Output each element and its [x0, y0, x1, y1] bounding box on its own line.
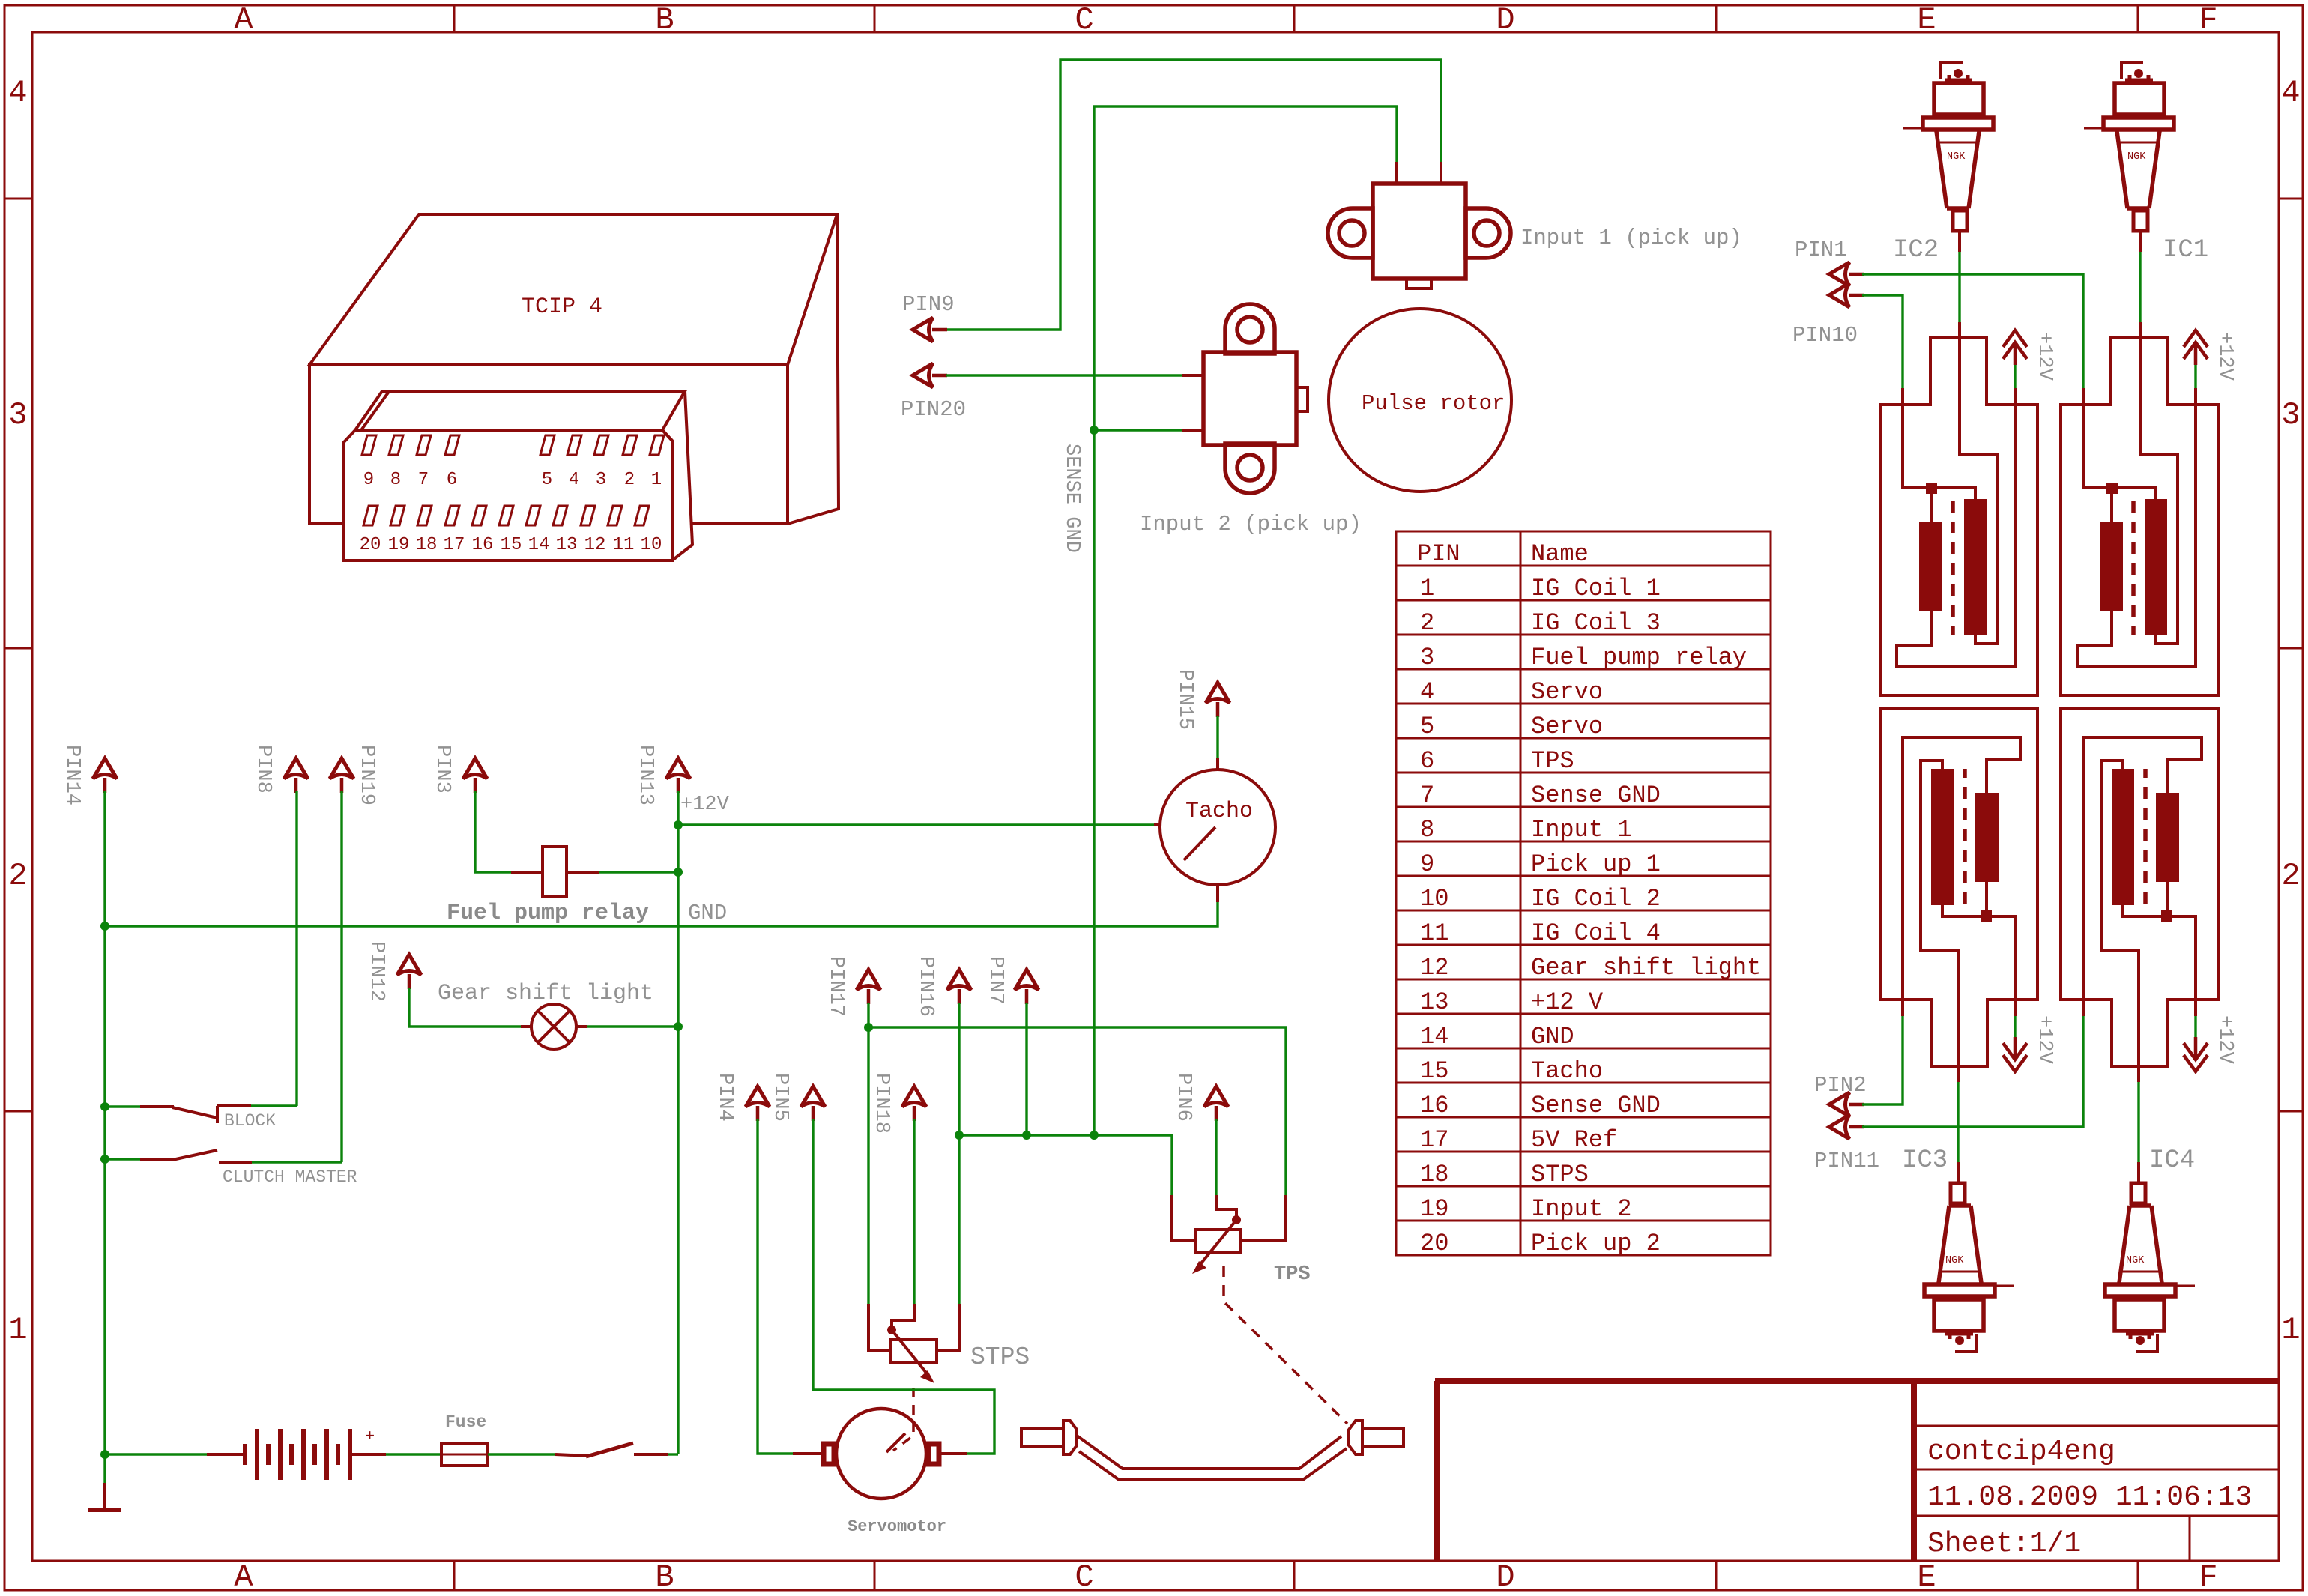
svg-text:F: F — [2199, 2, 2217, 38]
junction 5V node — [864, 1023, 873, 1032]
svg-text:17: 17 — [1420, 1126, 1448, 1154]
frame row ticks left — [4, 199, 32, 1111]
svg-text:IG Coil 2: IG Coil 2 — [1531, 885, 1661, 913]
svg-text:GND: GND — [1531, 1023, 1574, 1051]
svg-text:Input 1: Input 1 — [1531, 816, 1631, 844]
motor Servomotor — [836, 1409, 926, 1499]
node PIN1 arrow — [1829, 262, 1864, 286]
node PIN4 arrow — [746, 1086, 770, 1121]
svg-text:Fuel pump relay: Fuel pump relay — [447, 901, 649, 926]
svg-text:Gear shift light: Gear shift light — [1531, 954, 1761, 982]
svg-text:2: 2 — [624, 470, 635, 490]
svg-text:16: 16 — [472, 535, 494, 555]
svg-text:3: 3 — [2281, 397, 2300, 433]
junction relay — [674, 868, 683, 877]
potentiometer STPS — [868, 1304, 891, 1350]
node PIN5 arrow — [801, 1086, 825, 1121]
title block — [1435, 1381, 2279, 1561]
node PIN7 arrow — [1015, 970, 1039, 1004]
frame row labels 4-1 right — [2281, 75, 2300, 1348]
connector pin slots row A — [362, 435, 376, 455]
svg-text:4: 4 — [569, 470, 579, 490]
svg-text:12: 12 — [1420, 954, 1448, 982]
svg-text:2: 2 — [8, 858, 27, 894]
svg-text:PIN2: PIN2 — [1814, 1073, 1867, 1098]
ECU connector block — [344, 391, 692, 560]
wire PIN18 vertical — [913, 1119, 915, 1304]
svg-text:PIN14: PIN14 — [61, 745, 83, 805]
wire IC4 +12V stub — [2194, 1016, 2196, 1038]
wire IC2 HV — [1958, 252, 1960, 322]
frame column labels A-F bottom — [234, 1559, 2217, 1595]
svg-text:Servo: Servo — [1531, 678, 1603, 706]
svg-text:Input 2: Input 2 — [1531, 1195, 1631, 1223]
svg-text:C: C — [1075, 2, 1093, 38]
svg-text:8: 8 — [390, 470, 401, 490]
svg-text:1: 1 — [2281, 1312, 2300, 1348]
svg-text:TCIP 4: TCIP 4 — [522, 294, 602, 320]
svg-text:9: 9 — [363, 470, 374, 490]
power +12V IC4 — [2184, 1037, 2208, 1071]
svg-text:IC2: IC2 — [1893, 236, 1939, 265]
wire PIN6 vertical — [1215, 1119, 1217, 1195]
svg-text:1: 1 — [1420, 575, 1434, 602]
svg-text:BLOCK: BLOCK — [224, 1111, 276, 1131]
wire BLOCK right — [251, 1104, 297, 1107]
frame row ticks right — [2279, 199, 2303, 1111]
svg-text:4: 4 — [2281, 75, 2300, 111]
pin tacho bottom — [1216, 885, 1219, 902]
pulse rotor — [1329, 309, 1511, 492]
ECU box TCIP 4 front face — [309, 365, 788, 524]
svg-text:Tacho: Tacho — [1531, 1057, 1603, 1085]
svg-text:A: A — [234, 2, 253, 38]
svg-text:11.08.2009 11:06:13: 11.08.2009 11:06:13 — [1927, 1481, 2252, 1514]
svg-text:14: 14 — [1420, 1023, 1448, 1051]
potentiometer TPS — [1172, 1195, 1195, 1241]
node PIN15 arrow — [1206, 683, 1230, 717]
svg-text:17: 17 — [444, 535, 465, 555]
wire +12V rail to tacho — [678, 823, 1154, 826]
svg-text:8: 8 — [1420, 816, 1434, 844]
svg-text:PIN9: PIN9 — [902, 292, 955, 317]
svg-text:PIN7: PIN7 — [984, 956, 1006, 1005]
svg-text:PIN12: PIN12 — [365, 941, 387, 1002]
svg-text:PIN: PIN — [1417, 540, 1460, 568]
wire PIN4 to servo — [758, 1119, 793, 1454]
wire PIN11 to IC4 — [1862, 1016, 2083, 1127]
svg-text:TPS: TPS — [1274, 1263, 1311, 1286]
wire PIN2 to IC3 — [1862, 1016, 1903, 1104]
ignition coil IC3 — [1880, 709, 2037, 1082]
wire PIN14 / GND vertical — [103, 791, 106, 1483]
svg-text:+: + — [365, 1427, 375, 1446]
power +12V IC1 — [2184, 330, 2208, 365]
frame column ticks bottom — [454, 1561, 2138, 1590]
node PIN12 arrow — [397, 955, 421, 989]
svg-text:Servomotor: Servomotor — [848, 1517, 946, 1536]
svg-text:20: 20 — [360, 535, 381, 555]
svg-text:Input 1 (pick up): Input 1 (pick up) — [1520, 226, 1742, 250]
svg-text:6: 6 — [447, 470, 457, 490]
node PIN14 arrow — [93, 758, 117, 793]
node PIN9 arrow — [913, 318, 947, 342]
svg-text:PIN13: PIN13 — [634, 745, 656, 805]
svg-text:3: 3 — [8, 397, 27, 433]
svg-text:PIN5: PIN5 — [769, 1073, 791, 1122]
svg-text:10: 10 — [1420, 885, 1448, 913]
node PIN17 arrow — [857, 970, 880, 1004]
svg-text:PIN18: PIN18 — [870, 1073, 892, 1134]
wire IC1 HV — [2139, 252, 2141, 322]
junction sense rail 1 — [955, 1131, 964, 1140]
svg-text:TPS: TPS — [1531, 747, 1574, 775]
TPS wiper — [1216, 1195, 1236, 1217]
svg-text:Servo: Servo — [1531, 713, 1603, 740]
connector X1 body — [344, 391, 692, 560]
wire IC2 +12V stub — [2014, 365, 2016, 388]
svg-text:PIN11: PIN11 — [1814, 1149, 1879, 1173]
svg-text:IG Coil 3: IG Coil 3 — [1531, 609, 1661, 637]
svg-text:Gear shift light: Gear shift light — [438, 981, 653, 1006]
connector pin slots row B — [363, 506, 378, 525]
wire sense rail — [959, 1135, 1172, 1195]
throttle cable — [1021, 1428, 1063, 1446]
svg-text:NGK: NGK — [2126, 1255, 2145, 1266]
svg-text:16: 16 — [1420, 1092, 1448, 1119]
wire PIN16 vertical — [958, 1003, 960, 1304]
pin name table outline — [1396, 531, 1771, 1255]
svg-text:Sense GND: Sense GND — [1531, 782, 1661, 809]
frame column ticks top — [454, 5, 2138, 32]
svg-text:E: E — [1917, 2, 1936, 38]
svg-text:F: F — [2199, 1559, 2217, 1595]
svg-text:13: 13 — [556, 535, 578, 555]
ground symbol — [103, 1483, 106, 1508]
node PIN16 arrow — [947, 970, 971, 1004]
title block frame — [1435, 1378, 2279, 1384]
svg-text:7: 7 — [418, 470, 429, 490]
lamp Gear shift light — [531, 1004, 576, 1049]
svg-text:15: 15 — [501, 535, 522, 555]
svg-text:2: 2 — [1420, 609, 1434, 637]
svg-text:C: C — [1075, 1559, 1093, 1595]
svg-text:PIN3: PIN3 — [431, 745, 453, 794]
spark plug IC4 — [2105, 1162, 2195, 1352]
svg-text:14: 14 — [528, 535, 550, 555]
pickup sensor Input 2 — [1203, 304, 1308, 493]
svg-text:+12V: +12V — [2214, 1015, 2236, 1065]
node PIN18 arrow — [902, 1086, 926, 1121]
svg-text:CLUTCH MASTER: CLUTCH MASTER — [223, 1167, 357, 1187]
wire Input 2 lower pin to Input 1 left pin (SENSE GND riser) — [1094, 106, 1397, 1135]
svg-text:IG Coil 1: IG Coil 1 — [1531, 575, 1661, 602]
ECU box TCIP 4 top face — [309, 214, 837, 365]
svg-text:11: 11 — [1420, 919, 1448, 947]
junction sense rail 3 — [1090, 1131, 1099, 1140]
svg-text:Pick up 1: Pick up 1 — [1531, 850, 1661, 878]
svg-text:D: D — [1496, 2, 1514, 38]
svg-text:Pulse rotor: Pulse rotor — [1362, 391, 1505, 416]
svg-text:Fuel pump relay: Fuel pump relay — [1531, 644, 1747, 671]
wire PIN19 vertical — [340, 791, 342, 1162]
svg-text:GND: GND — [688, 901, 727, 925]
svg-text:12: 12 — [584, 535, 606, 555]
STPS wiper — [892, 1304, 914, 1327]
wire lamp to +12V — [576, 1025, 587, 1028]
battery — [243, 1444, 247, 1465]
svg-text:13: 13 — [1420, 988, 1448, 1016]
svg-text:4: 4 — [1420, 678, 1434, 706]
svg-text:PIN10: PIN10 — [1792, 323, 1858, 348]
svg-text:5: 5 — [1420, 713, 1434, 740]
svg-text:4: 4 — [8, 75, 27, 111]
spark plug IC3 — [1924, 1162, 2014, 1352]
svg-text:PIN1: PIN1 — [1795, 238, 1847, 262]
meter Tacho — [1160, 770, 1275, 885]
node PIN6 arrow — [1204, 1086, 1228, 1121]
wire 5V to TPS right — [868, 1027, 1286, 1195]
svg-text:Input 2 (pick up): Input 2 (pick up) — [1140, 512, 1362, 536]
svg-text:Fuse: Fuse — [445, 1412, 486, 1432]
svg-text:5V Ref: 5V Ref — [1531, 1126, 1617, 1154]
svg-text:9: 9 — [1420, 850, 1434, 878]
svg-text:2: 2 — [2281, 858, 2300, 894]
svg-text:PIN20: PIN20 — [901, 397, 966, 422]
svg-text:NGK: NGK — [1947, 151, 1966, 163]
svg-text:B: B — [655, 2, 674, 38]
svg-text:NGK: NGK — [2127, 151, 2146, 163]
svg-text:STPS: STPS — [970, 1343, 1030, 1371]
pickup sensor Input 1 — [1328, 184, 1511, 288]
wire IC1 +12V stub — [2194, 365, 2196, 388]
pin stub Input1 left — [1395, 162, 1398, 185]
power +12V IC2 — [2003, 330, 2027, 365]
svg-text:18: 18 — [416, 535, 438, 555]
svg-text:IC1: IC1 — [2163, 236, 2208, 265]
fuse Fuse — [441, 1443, 488, 1466]
pin table column divider — [1520, 531, 1522, 1255]
wire Input 2 lower-left pin — [1094, 429, 1182, 431]
svg-text:IC4: IC4 — [2149, 1146, 2195, 1175]
svg-text:SENSE GND: SENSE GND — [1060, 444, 1083, 553]
PIN name table — [1396, 531, 1771, 1257]
wire +12V vertical — [677, 791, 679, 1454]
junction CLUTCH — [100, 1155, 109, 1164]
svg-text:A: A — [234, 1559, 253, 1595]
svg-text:3: 3 — [1420, 644, 1434, 671]
svg-text:B: B — [655, 1559, 674, 1595]
svg-text:Pick up 2: Pick up 2 — [1531, 1230, 1661, 1257]
dashed link STPS to servo — [893, 1388, 913, 1451]
svg-text:1: 1 — [8, 1312, 27, 1348]
svg-text:IC3: IC3 — [1902, 1146, 1948, 1175]
junction GND rail — [100, 922, 109, 931]
ignition coil IC2 — [1880, 322, 2037, 695]
wire battery left — [105, 1453, 207, 1455]
svg-text:PIN15: PIN15 — [1173, 669, 1196, 730]
svg-text:+12V: +12V — [680, 794, 730, 816]
wire GND rail — [105, 902, 1218, 926]
wire PIN17 vertical to STPS — [867, 1003, 869, 1304]
wire PIN12 to lamp — [409, 988, 521, 1027]
svg-text:19: 19 — [388, 535, 410, 555]
svg-text:PIN17: PIN17 — [824, 956, 847, 1017]
svg-text:PIN19: PIN19 — [355, 745, 378, 805]
svg-text:NGK: NGK — [1945, 1255, 1964, 1266]
wire PIN7 vertical — [1025, 1003, 1027, 1135]
node PIN2 arrow — [1829, 1092, 1864, 1116]
junction sense rail 2 — [1022, 1131, 1031, 1140]
pin table text — [1417, 540, 1761, 1257]
dashed link TPS to throttle — [1224, 1266, 1347, 1424]
wire PIN20 to Input 2 upper-left pin — [946, 374, 1182, 376]
svg-text:18: 18 — [1420, 1161, 1448, 1188]
svg-text:E: E — [1917, 1559, 1936, 1595]
svg-text:PIN8: PIN8 — [252, 745, 274, 794]
svg-text:Name: Name — [1531, 540, 1589, 568]
svg-text:7: 7 — [1420, 782, 1434, 809]
ECU box TCIP 4 — [309, 214, 839, 524]
pin table row lines — [1396, 566, 1771, 1221]
switch CLUTCH MASTER — [140, 1158, 174, 1161]
node PIN11 arrow — [1829, 1115, 1864, 1139]
wire CLUTCH right — [252, 1161, 342, 1163]
ignition coil IC4 — [2061, 709, 2218, 1082]
svg-text:IG Coil 4: IG Coil 4 — [1531, 919, 1661, 947]
wire BLOCK left — [105, 1105, 140, 1107]
wire CLUTCH left — [105, 1158, 140, 1160]
power +12V IC3 — [2003, 1037, 2027, 1071]
svg-text:+12V: +12V — [2214, 332, 2236, 381]
svg-text:Sheet:1/1: Sheet:1/1 — [1927, 1528, 2081, 1560]
wire PIN8 vertical — [295, 791, 297, 1106]
node PIN13 arrow — [666, 758, 690, 793]
svg-text:D: D — [1496, 1559, 1514, 1595]
svg-text:5: 5 — [542, 470, 552, 490]
wire PIN9 to Input 1 — [946, 60, 1441, 330]
wire IC3 +12V stub — [2014, 1016, 2016, 1038]
svg-text:10: 10 — [641, 535, 662, 555]
junction +12V node — [674, 820, 683, 829]
relay Fuel pump relay — [511, 871, 543, 874]
spark plug IC2 — [1903, 62, 1993, 252]
ECU box TCIP 4 right face — [788, 214, 839, 524]
wire IC3 HV — [1957, 1082, 1959, 1162]
svg-text:11: 11 — [613, 535, 635, 555]
junction battery — [100, 1450, 109, 1459]
ignition coil IC1 — [2061, 322, 2218, 695]
junction SENSE GND / Input 2 — [1090, 426, 1099, 435]
junction BLOCK — [100, 1102, 109, 1111]
wire PIN10 to IC2 — [1862, 295, 1903, 388]
wire relay to +12V — [599, 871, 678, 873]
svg-text:3: 3 — [596, 470, 606, 490]
wire PIN1 to IC1 — [1862, 274, 2083, 388]
frame row labels 4-1 left — [8, 75, 27, 1348]
svg-text:1: 1 — [651, 470, 662, 490]
svg-text:Sense GND: Sense GND — [1531, 1092, 1661, 1119]
wire PIN3 to relay — [475, 791, 511, 872]
switch ignition — [555, 1454, 590, 1456]
svg-text:6: 6 — [1420, 747, 1434, 775]
node PIN8 arrow — [284, 758, 308, 793]
switch BLOCK — [140, 1105, 174, 1108]
svg-text:PIN6: PIN6 — [1172, 1073, 1194, 1122]
pin stub Input1 right — [1440, 162, 1442, 185]
svg-text:STPS: STPS — [1531, 1161, 1589, 1188]
node PIN19 arrow — [330, 758, 354, 793]
node PIN10 arrow — [1829, 283, 1864, 307]
wire IC4 HV — [2137, 1082, 2139, 1162]
svg-text:+12V: +12V — [2033, 332, 2055, 381]
spark plug IC1 — [2084, 62, 2174, 252]
wire PIN5 to servo — [813, 1119, 994, 1454]
junction gear light — [674, 1022, 683, 1031]
svg-text:20: 20 — [1420, 1230, 1448, 1257]
node PIN3 arrow — [463, 758, 487, 793]
svg-text:+12V: +12V — [2033, 1015, 2055, 1065]
svg-text:15: 15 — [1420, 1057, 1448, 1085]
svg-text:PIN4: PIN4 — [713, 1073, 736, 1122]
node PIN20 arrow — [913, 363, 947, 387]
svg-text:contcip4eng: contcip4eng — [1927, 1436, 2115, 1468]
wire PIN15 to tacho — [1216, 716, 1218, 758]
svg-text:Tacho: Tacho — [1185, 799, 1253, 824]
svg-text:+12 V: +12 V — [1531, 988, 1604, 1016]
svg-text:PIN16: PIN16 — [914, 956, 937, 1017]
frame column labels A-F top — [234, 2, 2217, 38]
svg-text:19: 19 — [1420, 1195, 1448, 1223]
